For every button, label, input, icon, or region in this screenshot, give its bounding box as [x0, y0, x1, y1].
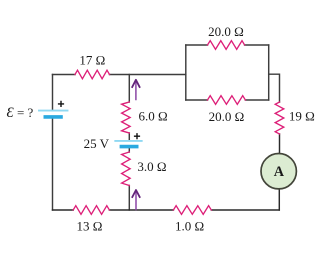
- wire parallel box top side: [186, 44, 269, 46]
- wire parallel box right edge: [268, 45, 270, 100]
- resistor R 1.0ohm: [173, 206, 211, 215]
- svg-text:25 V: 25 V: [84, 136, 110, 151]
- svg-text:Ɛ = ?: Ɛ = ?: [7, 105, 34, 121]
- label + (emf battery): [59, 102, 64, 107]
- current arrow bottom (middle branch): [132, 190, 139, 210]
- battery 25V short plate: [121, 145, 136, 149]
- svg-text:19 Ω: 19 Ω: [289, 108, 315, 123]
- resistor R 6.0ohm: [122, 102, 131, 133]
- svg-text:3.0 Ω: 3.0 Ω: [137, 159, 166, 174]
- wire middle branch between 25V battery and 3.0ohm: [128, 147, 130, 152]
- wire top horizontal (corner to 17ohm): [53, 74, 76, 76]
- svg-text:20.0 Ω: 20.0 Ω: [209, 109, 245, 124]
- node middle-top junction: [128, 75, 130, 103]
- wire 19ohm to ammeter: [279, 134, 281, 153]
- ammeter A: [261, 154, 296, 189]
- battery emf (unknown) short plate: [45, 115, 61, 119]
- resistor R 20.0ohm top: [208, 41, 245, 50]
- wire left vertical (top part, emf battery to top-left corner): [52, 75, 54, 111]
- wire middle branch between 6.0ohm and 25V battery: [128, 133, 130, 140]
- battery emf (unknown) long plate: [39, 110, 68, 112]
- svg-text:1.0 Ω: 1.0 Ω: [175, 219, 204, 234]
- wire bottom horizontal (1.0ohm to 13ohm, through bottom junction): [109, 209, 173, 211]
- wire parallel box bottom side: [186, 99, 269, 101]
- label + (25V battery): [135, 134, 140, 139]
- resistor R 17ohm: [75, 70, 110, 79]
- svg-text:6.0 Ω: 6.0 Ω: [139, 109, 168, 124]
- wire top horizontal (17ohm to parallel box, through middle junction): [110, 74, 186, 76]
- wire parallel box left edge: [185, 45, 187, 100]
- resistor R 20.0ohm bottom: [208, 96, 246, 105]
- resistor R 13ohm: [73, 206, 109, 215]
- wire ammeter to bottom-right corner: [278, 189, 280, 210]
- wire middle branch 3.0ohm to bottom junction: [128, 186, 130, 211]
- wire stub box to right branch: [269, 74, 280, 102]
- resistor R 3.0ohm: [122, 152, 131, 186]
- resistor R 19ohm: [275, 102, 284, 134]
- battery 25V long plate: [115, 140, 141, 142]
- svg-text:A: A: [274, 164, 285, 180]
- current arrow top (middle branch): [132, 80, 139, 100]
- svg-text:20.0 Ω: 20.0 Ω: [208, 24, 244, 39]
- wire bottom horizontal (right corner to 1.0ohm): [211, 209, 279, 211]
- svg-text:13 Ω: 13 Ω: [77, 218, 103, 233]
- svg-text:17 Ω: 17 Ω: [79, 53, 105, 68]
- wire bottom horizontal (13ohm to left corner): [53, 209, 74, 211]
- wire left vertical (bottom part, emf battery to bottom-left corner): [52, 117, 54, 210]
